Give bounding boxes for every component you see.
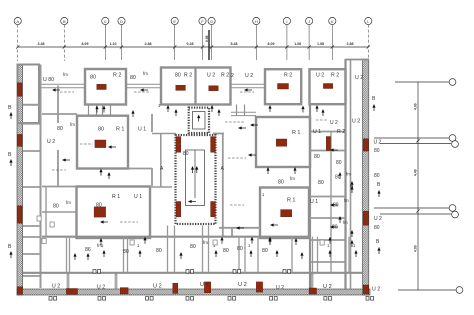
grid bubble B xyxy=(61,17,68,24)
leader line xyxy=(60,91,74,93)
right dim line y82 xyxy=(395,81,449,83)
svg-text:4.09: 4.09 xyxy=(414,245,418,252)
thick grid line G xyxy=(208,30,210,60)
red block room C1 xyxy=(94,207,106,217)
window symbol below wall xyxy=(366,297,374,301)
corridor wall top-mid xyxy=(126,83,161,85)
outer wall left (hatched) xyxy=(17,64,23,295)
red block stair bottom-left xyxy=(176,202,181,217)
balcony pier x116 xyxy=(115,274,117,289)
svg-text:2: 2 xyxy=(231,73,234,79)
vestibule stub below A1 xyxy=(88,105,90,117)
stair center line xyxy=(194,150,196,198)
svg-text:U 2: U 2 xyxy=(323,284,332,290)
red block room A5 xyxy=(323,84,332,89)
wall bottom partition long x208.5 xyxy=(208,226,210,273)
svg-text:8.09: 8.09 xyxy=(268,42,275,46)
svg-text:U 2: U 2 xyxy=(276,285,284,291)
red block stair top-left xyxy=(176,137,181,153)
window symbol below wall xyxy=(270,297,278,301)
leader line xyxy=(230,204,244,206)
door arrow up xyxy=(217,109,220,116)
svg-text:R 2: R 2 xyxy=(184,73,192,79)
arrow left xyxy=(100,220,108,223)
door arrow up xyxy=(268,238,271,245)
tick H xyxy=(255,45,258,48)
svg-text:4.49: 4.49 xyxy=(414,169,418,176)
grid bubble D xyxy=(118,17,125,24)
elevator shaft dotted xyxy=(189,108,209,133)
grid bubble J xyxy=(306,17,313,24)
svg-text:80: 80 xyxy=(278,180,284,186)
svg-text:fm: fm xyxy=(70,122,75,127)
grid line A xyxy=(17,25,19,61)
svg-text:U 2: U 2 xyxy=(330,120,338,126)
wall corridor left of core xyxy=(160,134,162,187)
red block room A3 xyxy=(209,86,219,91)
svg-text:B: B xyxy=(8,152,12,158)
B marker arrow xyxy=(350,230,353,237)
arrow left xyxy=(108,145,116,148)
red block right wall upper xyxy=(363,139,368,151)
red block room A1 xyxy=(97,84,106,89)
door arrow up xyxy=(99,169,102,176)
leader line xyxy=(225,121,245,123)
svg-text:80: 80 xyxy=(57,126,63,132)
right dim line y208 xyxy=(374,207,449,209)
svg-text:A: A xyxy=(16,19,19,24)
wall left strip partition xyxy=(23,253,41,255)
svg-text:U 2: U 2 xyxy=(316,73,324,79)
arrow left xyxy=(330,148,338,151)
door arrow up xyxy=(268,237,271,244)
room A5 (U 2 R 2) xyxy=(310,69,346,104)
door arrow up xyxy=(249,250,252,257)
B marker arrow xyxy=(377,190,380,197)
fixture xyxy=(42,239,46,244)
fixture xyxy=(50,222,54,227)
svg-text:80: 80 xyxy=(237,246,243,252)
stair core outer dotted box xyxy=(176,135,216,224)
door arrow up xyxy=(268,105,271,112)
corridor wall below A3-A4 gap xyxy=(231,111,256,113)
svg-text:I: I xyxy=(286,19,287,24)
wall corridor right of core xyxy=(222,134,224,238)
svg-text:1.10: 1.10 xyxy=(110,42,117,46)
svg-text:80: 80 xyxy=(374,148,380,154)
wall left strip partition xyxy=(23,186,41,188)
door arrow up xyxy=(179,252,182,259)
grid line E xyxy=(174,25,176,60)
wall xyxy=(231,228,233,237)
wall below corridor left xyxy=(150,186,172,188)
door arrow up xyxy=(266,167,269,174)
svg-text:U 2: U 2 xyxy=(200,282,209,288)
svg-text:80: 80 xyxy=(223,248,229,254)
svg-text:3.48: 3.48 xyxy=(38,42,45,46)
red block bottom-left corner xyxy=(17,287,22,295)
red block bottom wall 3 xyxy=(309,288,316,294)
wall left strip partition xyxy=(23,236,41,238)
wall bottom partition long x167.5 xyxy=(167,226,169,273)
wall balcony inner right xyxy=(350,59,352,289)
grid line F xyxy=(202,25,204,60)
window symbol below wall xyxy=(186,297,194,301)
vestibule stub below A3-A4 gap xyxy=(244,105,246,117)
arrow left xyxy=(248,153,256,156)
red block left wall lower xyxy=(17,206,22,223)
svg-text:80: 80 xyxy=(314,154,320,160)
red block room A2 xyxy=(176,85,186,90)
wall right column partition xyxy=(310,217,346,219)
wall bottom partition x258 xyxy=(257,237,259,273)
tick A xyxy=(16,45,19,48)
wall mid vertical xyxy=(151,168,153,186)
svg-text:fm: fm xyxy=(63,72,68,77)
wall core left stub xyxy=(152,133,176,135)
wall left strip partition xyxy=(23,225,41,227)
wall bottom partition x349 xyxy=(348,237,350,273)
vestibule stub below A1 xyxy=(110,105,112,117)
tick G xyxy=(210,45,213,48)
grid line H xyxy=(255,25,257,60)
fixture xyxy=(37,216,41,221)
svg-text:80: 80 xyxy=(190,244,196,250)
tick I xyxy=(285,45,288,48)
svg-text:U 1: U 1 xyxy=(313,129,321,135)
fixture xyxy=(130,240,134,245)
tick E xyxy=(173,45,176,48)
svg-text:80: 80 xyxy=(374,225,380,231)
tick C xyxy=(104,45,107,48)
svg-text:fm: fm xyxy=(343,220,348,225)
svg-text:fm: fm xyxy=(203,240,208,245)
svg-text:U 1: U 1 xyxy=(310,199,318,205)
door arrow up xyxy=(354,250,357,257)
door arrow up xyxy=(99,238,102,245)
door arrow up xyxy=(294,238,297,245)
svg-text:R 2: R 2 xyxy=(337,129,345,135)
corridor wall top-mid xyxy=(126,87,161,89)
door arrow up xyxy=(250,237,253,244)
corridor wall top-right xyxy=(231,87,265,89)
grid line G xyxy=(211,25,213,60)
red block bottom pier 2 xyxy=(204,282,210,293)
door arrow up xyxy=(102,106,105,113)
door arrow up xyxy=(315,105,318,112)
red block bottom pier 3 xyxy=(256,282,262,292)
room B1 (80 R 1) xyxy=(77,116,128,169)
right dim line y138 xyxy=(374,137,449,139)
arrow left xyxy=(52,88,60,91)
red block right wall lower xyxy=(363,211,368,225)
svg-text:U 2: U 2 xyxy=(97,285,105,291)
red block room B1 xyxy=(95,140,106,148)
arrow left xyxy=(140,88,148,91)
svg-text:R 1: R 1 xyxy=(116,127,124,133)
door arrow up xyxy=(350,186,353,193)
svg-text:80: 80 xyxy=(156,248,162,254)
leader line xyxy=(120,221,138,223)
outer wall bottom (hatched) xyxy=(17,289,370,295)
vestibule stub below A3-A4 gap xyxy=(236,105,238,117)
wall mid vertical upper xyxy=(151,114,153,132)
wall top-right cap xyxy=(346,59,370,61)
svg-text:U 2: U 2 xyxy=(52,284,60,290)
svg-text:80: 80 xyxy=(336,160,342,166)
right tick xyxy=(416,209,419,212)
wall left mid horizontal xyxy=(42,211,77,213)
grid line J xyxy=(308,25,310,60)
tick D xyxy=(120,45,123,48)
tick J xyxy=(308,45,311,48)
svg-text:U 2: U 2 xyxy=(374,140,382,146)
fixture xyxy=(213,240,217,245)
svg-text:2.88: 2.88 xyxy=(145,42,152,46)
room A2/A3 (80 R 2 | U 2 R 2) xyxy=(161,68,231,105)
arrow left xyxy=(330,225,338,228)
svg-text:U 1: U 1 xyxy=(138,127,146,133)
grid bubble I xyxy=(283,17,290,24)
door arrow up xyxy=(300,252,303,259)
svg-text:fm: fm xyxy=(344,198,349,203)
grid bubble C xyxy=(102,17,109,24)
svg-text:80: 80 xyxy=(374,173,380,179)
svg-text:R 2: R 2 xyxy=(221,73,229,79)
red block bottom pier 1 xyxy=(173,283,178,293)
svg-text:R 1: R 1 xyxy=(292,130,300,136)
svg-text:H: H xyxy=(255,19,258,24)
grid line C xyxy=(104,25,106,60)
leader line xyxy=(316,119,328,121)
grid line K xyxy=(331,25,333,60)
door arrow up xyxy=(131,110,134,117)
red block room C2 xyxy=(281,210,292,217)
right dim line y143 xyxy=(380,143,451,145)
svg-text:fm: fm xyxy=(346,172,351,177)
svg-text:U 2: U 2 xyxy=(207,73,215,79)
door arrow up xyxy=(220,237,223,244)
door arrow up xyxy=(73,253,76,260)
door arrow up xyxy=(143,237,146,244)
wall left strip partition xyxy=(23,123,41,125)
grid bubble K xyxy=(329,17,336,24)
wall right column partition xyxy=(310,196,346,198)
svg-text:80: 80 xyxy=(98,127,104,133)
wall bottom partition x312.5 xyxy=(312,237,314,273)
balcony pier x312 xyxy=(311,274,313,289)
svg-text:80: 80 xyxy=(333,203,339,209)
red block room B2 xyxy=(276,139,286,146)
wall xyxy=(23,104,41,106)
svg-text:U 2: U 2 xyxy=(374,216,382,222)
svg-text:1.98: 1.98 xyxy=(317,42,324,46)
svg-text:U 2: U 2 xyxy=(238,282,247,288)
window symbol below wall xyxy=(228,297,236,301)
window symbol below wall xyxy=(146,297,154,301)
outer wall right (hatched) xyxy=(363,59,369,295)
red block bottom-right corner xyxy=(363,285,368,294)
svg-text:E: E xyxy=(173,19,176,24)
arrow left xyxy=(238,126,246,129)
room A4 (R 2) xyxy=(265,69,301,104)
wall top-left partition xyxy=(57,86,59,124)
wall left strip partition xyxy=(23,275,41,277)
svg-text:B: B xyxy=(8,244,12,250)
svg-text:J: J xyxy=(308,19,310,24)
svg-text:U 2: U 2 xyxy=(355,75,363,81)
door arrow up xyxy=(86,253,89,260)
window symbol below wall xyxy=(98,297,106,301)
room A1 (80 R 2) xyxy=(85,69,126,105)
red block stair bottom-right xyxy=(211,202,216,217)
room C2 (R 1) xyxy=(260,188,309,239)
wall bottom row top xyxy=(42,236,310,238)
wall right column partition xyxy=(310,131,346,133)
wall bottom partition x239 xyxy=(238,237,240,273)
door arrow up xyxy=(301,106,304,113)
svg-text:R 1: R 1 xyxy=(287,198,295,204)
red block left wall mid xyxy=(17,134,22,146)
corridor wall below A3-A4 gap xyxy=(231,115,256,117)
door arrow up xyxy=(107,172,110,179)
svg-text:U 2: U 2 xyxy=(47,139,55,145)
B marker arrow xyxy=(350,181,353,188)
svg-text:R 2: R 2 xyxy=(113,73,121,79)
red block bottom wall 2 xyxy=(120,288,128,294)
corridor wall top-left xyxy=(40,87,86,89)
svg-text:fm: fm xyxy=(66,200,71,205)
svg-text:B: B xyxy=(8,105,12,111)
svg-text:U 2: U 2 xyxy=(372,287,380,293)
svg-text:4.09: 4.09 xyxy=(414,103,418,110)
right dim line y290 xyxy=(398,289,456,291)
grid line D xyxy=(121,25,123,60)
stair flight loop xyxy=(186,150,205,206)
door arrow up xyxy=(338,172,341,179)
svg-text:B: B xyxy=(63,19,66,24)
arrow left xyxy=(270,223,278,226)
B marker arrow xyxy=(372,104,375,111)
leader line xyxy=(52,169,66,171)
room top-left outline xyxy=(18,65,40,124)
svg-text:80: 80 xyxy=(53,204,59,210)
vestibule stub below A1 xyxy=(102,105,104,117)
door arrow up xyxy=(328,237,331,244)
wall bottom partition long x202.5 xyxy=(202,226,204,273)
door arrow up xyxy=(174,109,177,116)
door arrow up xyxy=(275,250,278,257)
door arrow up xyxy=(350,240,353,247)
svg-text:5.48: 5.48 xyxy=(231,42,238,46)
wall bottom partition x66.5 xyxy=(66,237,68,273)
wall stub xyxy=(213,133,224,135)
elevator car xyxy=(193,112,206,130)
grid line B xyxy=(63,25,65,61)
wall right column inner divider xyxy=(330,132,332,273)
svg-text:K: K xyxy=(331,19,334,24)
wall xyxy=(42,186,77,188)
svg-text:G: G xyxy=(210,19,213,24)
B marker arrow xyxy=(9,251,12,258)
svg-text:80: 80 xyxy=(123,249,129,255)
svg-text:80: 80 xyxy=(183,151,189,157)
arrow left xyxy=(62,158,70,161)
wall right column outer xyxy=(344,59,346,289)
top dimension line xyxy=(18,46,369,48)
door symbol corridor xyxy=(186,270,194,274)
door arrow up xyxy=(102,250,105,257)
tick K xyxy=(331,45,334,48)
door symbol corridor xyxy=(283,270,291,274)
svg-text:U 2: U 2 xyxy=(153,284,162,290)
door arrow up xyxy=(338,216,341,223)
arrow left xyxy=(236,226,244,229)
wall left mid second xyxy=(45,187,47,237)
svg-text:80: 80 xyxy=(175,73,181,79)
svg-text:fm: fm xyxy=(290,176,295,181)
B marker arrow xyxy=(9,159,12,166)
door symbol corridor xyxy=(233,270,241,274)
leader line xyxy=(228,157,246,159)
wall bottom partition x123.5 xyxy=(123,237,125,273)
wall bottom partition x245 xyxy=(244,237,246,273)
window symbol below wall xyxy=(49,297,57,301)
svg-text:fm: fm xyxy=(143,71,148,76)
grid line I xyxy=(286,25,288,60)
svg-text:U 2: U 2 xyxy=(352,119,360,125)
door arrow up xyxy=(138,250,141,257)
svg-text:2.88: 2.88 xyxy=(347,42,354,46)
wall xyxy=(42,113,77,115)
svg-text:0.28: 0.28 xyxy=(187,42,194,46)
grid bubble L xyxy=(365,17,372,24)
svg-text:80: 80 xyxy=(130,75,136,81)
stair bottom arrow xyxy=(188,200,196,203)
svg-text:U 80: U 80 xyxy=(43,77,54,83)
right dim line y214 xyxy=(380,213,451,215)
red block bottom wall 1 xyxy=(66,289,77,295)
vestibule stub below A1 xyxy=(96,105,98,117)
door arrow up xyxy=(95,106,98,113)
leader line xyxy=(134,91,150,93)
wall xyxy=(128,168,152,170)
door arrow up xyxy=(214,250,217,257)
svg-text:80: 80 xyxy=(262,248,268,254)
B marker arrow xyxy=(377,247,380,254)
wall split A2/A3 xyxy=(194,68,196,105)
red block left wall top xyxy=(17,83,22,97)
svg-text:R 1: R 1 xyxy=(112,194,120,200)
arrow left xyxy=(250,123,258,126)
wall right column partition xyxy=(310,150,346,152)
red block room A4 xyxy=(278,84,289,90)
door arrow up xyxy=(321,109,324,116)
svg-text:80: 80 xyxy=(318,180,324,186)
corridor wall top-left xyxy=(40,83,86,85)
wall bottom partition x317.5 xyxy=(317,237,319,273)
B marker arrow xyxy=(9,112,12,119)
wall bottom row bottom xyxy=(23,272,362,274)
window symbol below wall xyxy=(324,297,332,301)
svg-text:1.08: 1.08 xyxy=(294,42,301,46)
arrow left xyxy=(330,203,338,206)
svg-text:C: C xyxy=(104,19,107,24)
grid bubble A xyxy=(14,17,21,24)
grid bubble H xyxy=(253,17,260,24)
grid bubble F xyxy=(199,17,206,24)
corridor wall top-right xyxy=(231,83,265,85)
